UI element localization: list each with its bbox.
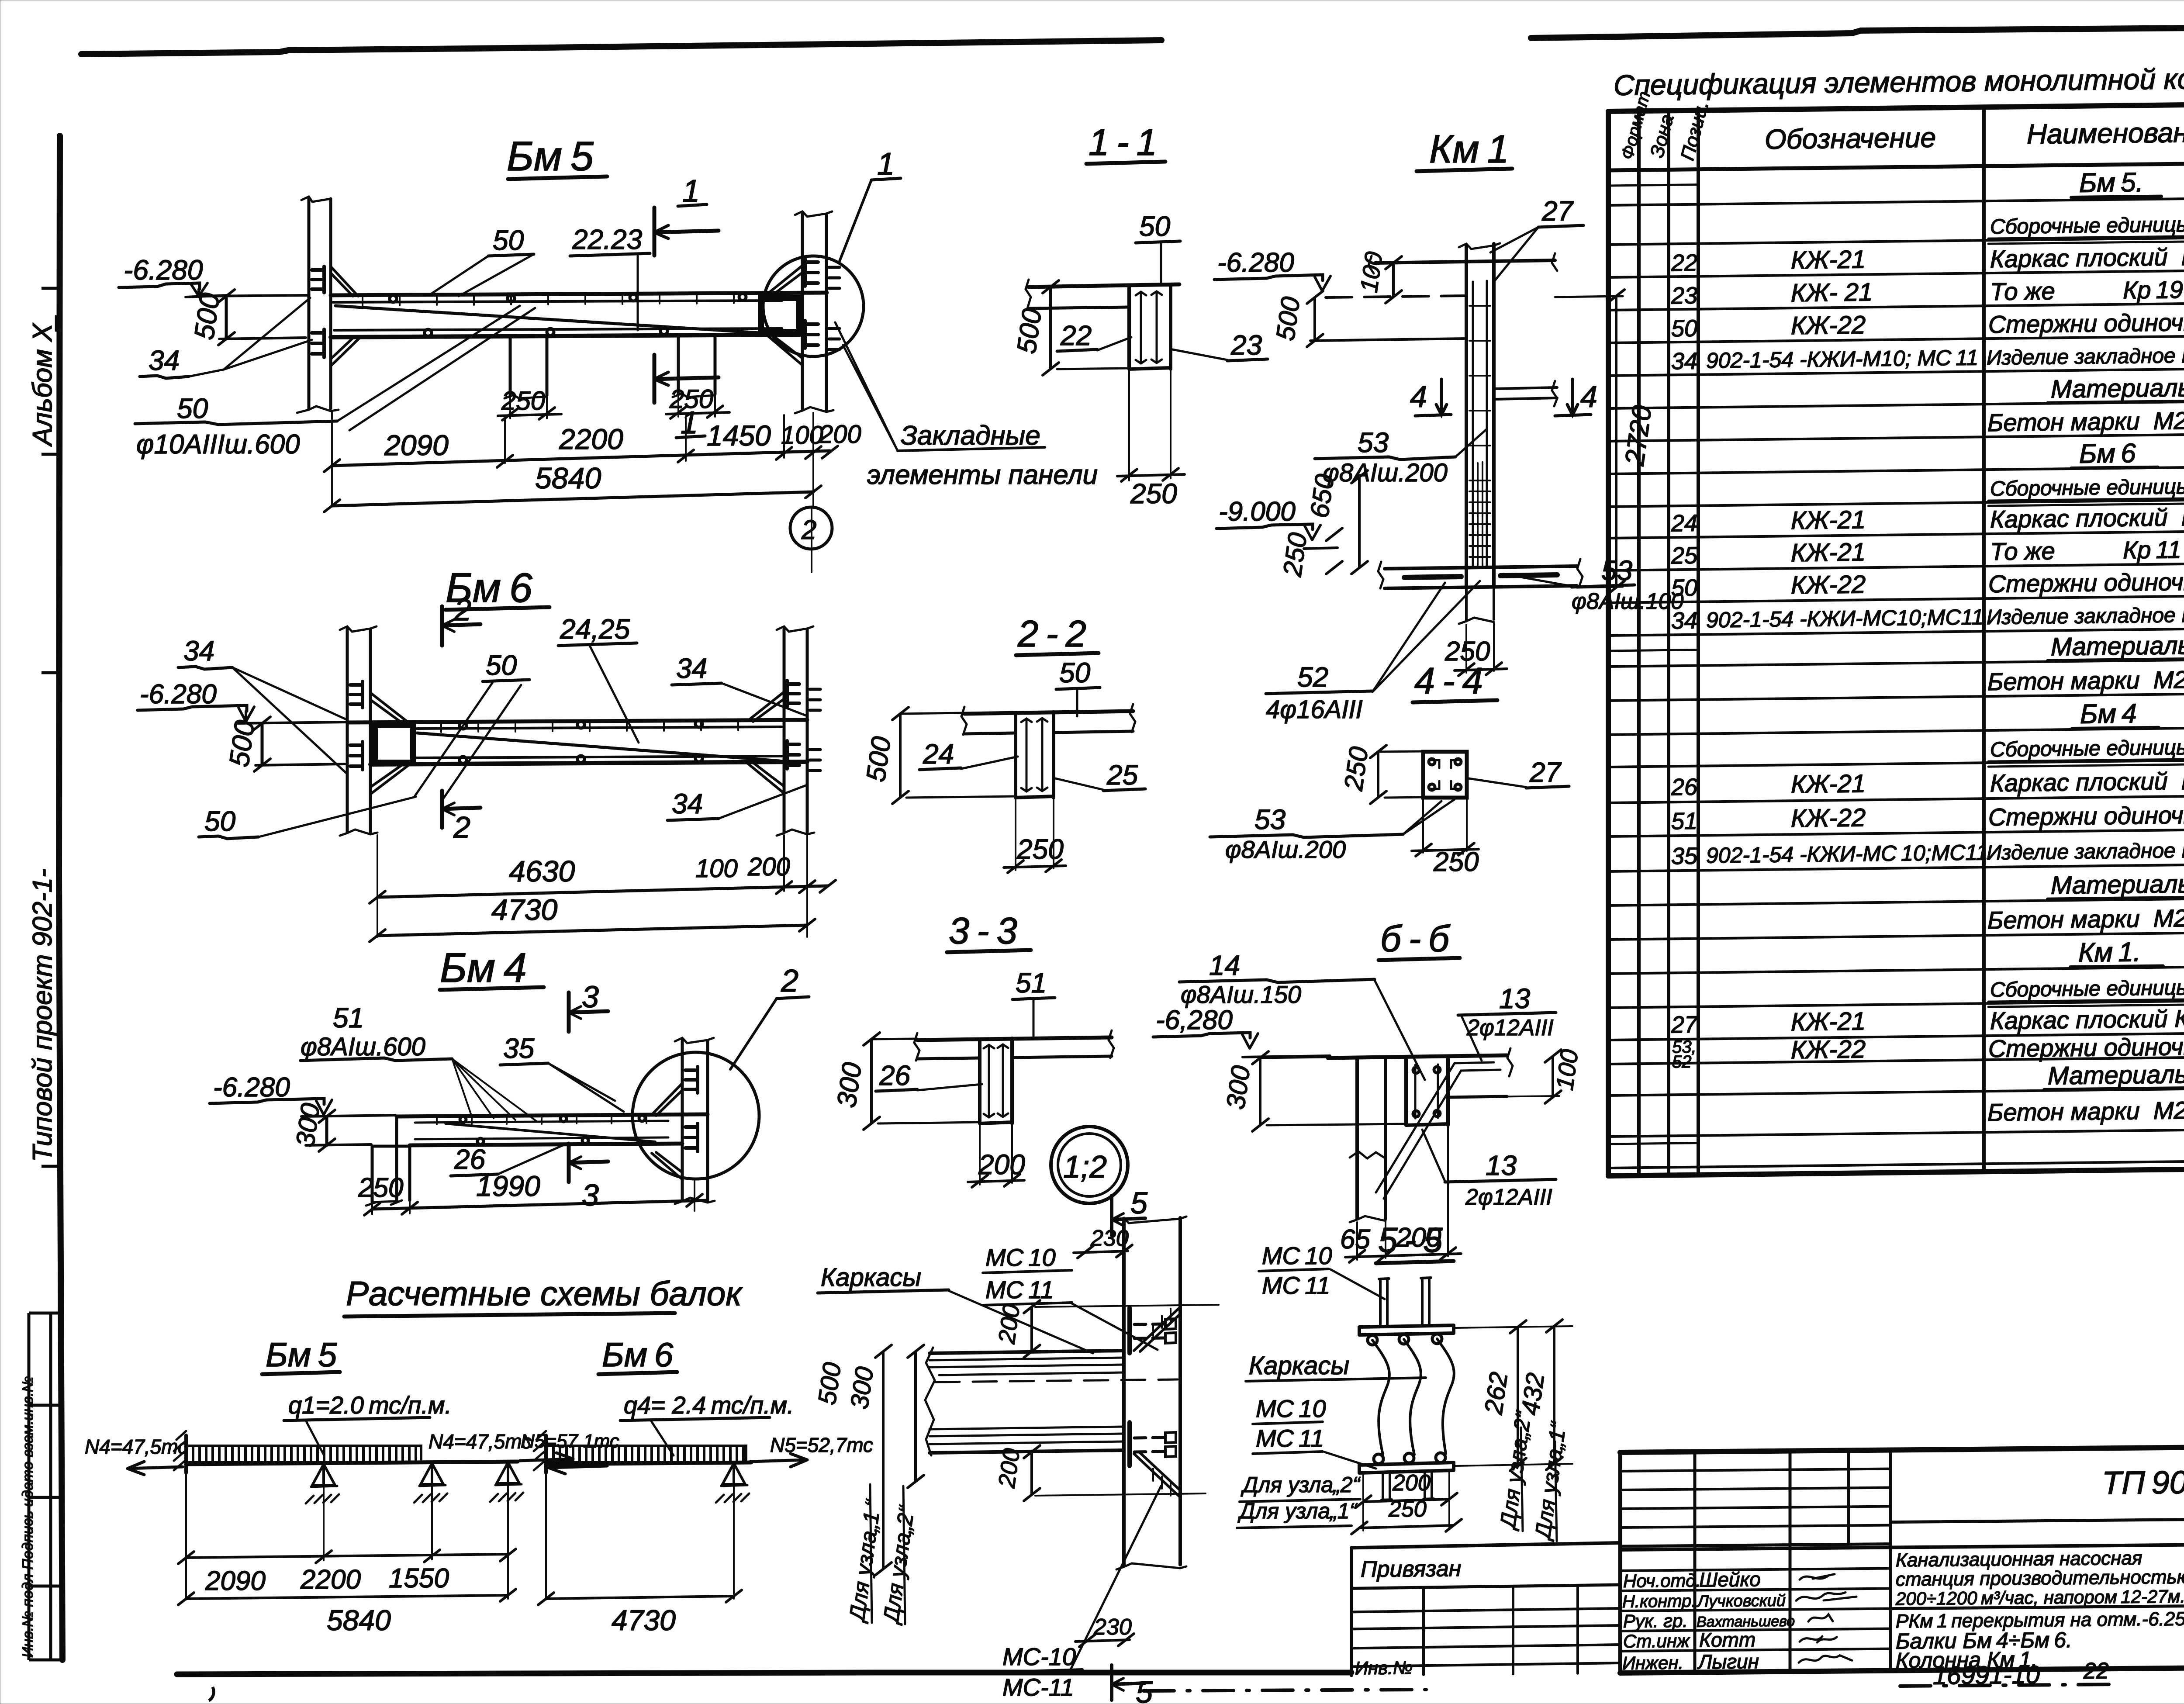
- svg-text:Закладные: Закладные: [901, 421, 1040, 451]
- slab 2-2: [964, 711, 1133, 714]
- bottom plate: [1359, 1462, 1454, 1473]
- dim 200 upper node: [1035, 1305, 1219, 1307]
- svg-text:q1=2.0 тс/п.м.: q1=2.0 тс/п.м.: [288, 1391, 452, 1419]
- wall б-б: [1357, 1058, 1386, 1219]
- svg-text:13: 13: [1486, 1150, 1517, 1181]
- svg-text:50: 50: [177, 393, 208, 424]
- node detail circle: [763, 256, 864, 356]
- svg-text:250: 250: [1016, 833, 1064, 865]
- lower anchors: [1134, 1438, 1165, 1452]
- rebar dots top: [390, 294, 746, 336]
- svg-text:Спецификация элементов монолит: Спецификация элементов монолитной констр…: [1614, 61, 2184, 101]
- svg-text:Стержни одиночные: Стержни одиночные: [1988, 567, 2184, 598]
- svg-text:Привязан: Привязан: [1361, 1556, 1461, 1582]
- svg-text:1;2: 1;2: [1063, 1150, 1107, 1185]
- svg-text:Сборочные единицы и детали.: Сборочные единицы и детали.: [1990, 975, 2184, 1002]
- svg-text:26: 26: [1671, 774, 1698, 801]
- top pins: [1379, 1279, 1389, 1325]
- beam top bundle: [930, 1351, 1124, 1353]
- svg-text:Типовой проект 902-1-: Типовой проект 902-1-: [28, 868, 58, 1162]
- svg-text:51: 51: [333, 1002, 364, 1033]
- svg-text:Для узла„1 “: Для узла„1 “: [844, 1497, 886, 1625]
- svg-text:5840: 5840: [535, 462, 601, 495]
- dim 300 Бм4: [325, 1116, 328, 1145]
- dim 250 1-1: [1129, 369, 1171, 480]
- svg-text:25: 25: [1106, 759, 1138, 791]
- dim 100 Км1: [1392, 263, 1395, 297]
- top plate: [1359, 1325, 1454, 1335]
- svg-text:Н.контр.: Н.контр.: [1622, 1591, 1696, 1611]
- taper diagonal: [335, 306, 760, 333]
- svg-text:-6.280: -6.280: [213, 1072, 290, 1103]
- svg-text:34: 34: [1671, 608, 1697, 634]
- beam left break: [925, 1348, 935, 1455]
- corbel upper left: [331, 266, 358, 296]
- svg-text:Бетон марки М200: Бетон марки М200: [1987, 406, 2184, 436]
- right wall Бм5: [801, 214, 804, 410]
- svg-text:ТП 902-1-54 -КЖ: ТП 902-1-54 -КЖ: [2102, 1462, 2184, 1501]
- corner squiggle: [209, 1687, 214, 1701]
- svg-text:Каркас плоский КР 20: Каркас плоский КР 20: [1990, 766, 2184, 797]
- upper anchors: [1134, 1324, 1165, 1338]
- svg-text:432: 432: [1516, 1371, 1550, 1417]
- svg-text:N4=47,5тс: N4=47,5тс: [429, 1430, 532, 1453]
- svg-text:500: 500: [1271, 295, 1306, 342]
- svg-text:51: 51: [1016, 967, 1047, 999]
- svg-text:Стержни одиночные: Стержни одиночные: [1988, 308, 2184, 338]
- column section rect: [1423, 752, 1467, 798]
- dim extensions 5-5: [1455, 1326, 1572, 1466]
- revision table: [1620, 1469, 1890, 1528]
- svg-text:250: 250: [1433, 847, 1479, 877]
- section mark 5 lower: [1112, 1665, 1145, 1700]
- middle split line: [1620, 1543, 2184, 1550]
- svg-text:2 - 2: 2 - 2: [1017, 613, 1086, 655]
- slab top б-б: [1328, 1055, 1507, 1058]
- svg-text:25: 25: [1671, 543, 1698, 569]
- svg-text:300: 300: [832, 1061, 868, 1110]
- dim 500 1-1: [1049, 287, 1052, 369]
- svg-text:Бм 5.: Бм 5.: [2079, 167, 2143, 198]
- svg-text:27: 27: [1529, 757, 1562, 788]
- svg-text:2090: 2090: [384, 429, 449, 461]
- svg-text:1550: 1550: [389, 1563, 449, 1593]
- top border right segment: [1531, 26, 2184, 38]
- svg-text:КЖ- 21: КЖ- 21: [1791, 278, 1873, 307]
- svg-text:230: 230: [1093, 1614, 1132, 1640]
- svg-text:300: 300: [845, 1365, 879, 1411]
- section mark 1 upper: [654, 207, 719, 256]
- dim 250 below 4-4: [1423, 798, 1467, 853]
- svg-text:902-1-54 -КЖИ-М10; МС 11: 902-1-54 -КЖИ-М10; МС 11: [1706, 345, 1978, 373]
- slab 3-3: [917, 1037, 1112, 1040]
- svg-text:100: 100: [1550, 1047, 1583, 1092]
- slab right step: [1448, 1096, 1507, 1097]
- svg-text:902-1-54 -КЖИ-МС 10;МС11: 902-1-54 -КЖИ-МС 10;МС11: [1706, 840, 1988, 868]
- svg-text:22: 22: [1671, 250, 1697, 277]
- svg-text:34: 34: [676, 653, 707, 684]
- svg-text:КЖ-22: КЖ-22: [1791, 1035, 1866, 1064]
- svg-text:1990: 1990: [476, 1170, 540, 1202]
- svg-text:МС 10: МС 10: [985, 1244, 1056, 1271]
- svg-text:Сборочные единицы и детали: Сборочные единицы и детали: [1990, 735, 2184, 761]
- svg-text:Стержни одиночные: Стержни одиночные: [1988, 801, 2184, 831]
- rib 2 below beam: [678, 335, 715, 394]
- svg-text:Лучковский: Лучковский: [1696, 1592, 1786, 1611]
- svg-text:200: 200: [993, 1447, 1025, 1490]
- svg-text:Бм 6: Бм 6: [2079, 438, 2136, 469]
- svg-text:2φ12АIII: 2φ12АIII: [1465, 1185, 1552, 1210]
- svg-text:Ноч.отд.: Ноч.отд.: [1623, 1570, 1701, 1591]
- svg-text:4630: 4630: [509, 855, 575, 888]
- dim 250 under base: [1466, 623, 1494, 673]
- svg-text:Расчетные схемы балок: Расчетные схемы балок: [346, 1274, 743, 1313]
- svg-text:1450: 1450: [707, 419, 771, 452]
- left wall Бм5: [308, 199, 311, 408]
- svg-text:Для узла„1“: Для узла„1“: [1237, 1499, 1358, 1523]
- dim 300 3-3: [870, 1039, 873, 1123]
- beam bottom lines: [331, 335, 803, 337]
- embedded plate lower left wall: [312, 329, 324, 357]
- bent bars 13: [1376, 1062, 1500, 1199]
- dims Бм5 scheme: [186, 1473, 508, 1600]
- svg-text:26: 26: [879, 1060, 911, 1091]
- table horizontals: [1608, 103, 2184, 111]
- svg-text:То же Кр 11: То же Кр 11: [1990, 536, 2181, 565]
- svg-text:Сборочные единицы и детали.: Сборочные единицы и детали.: [1990, 212, 2184, 238]
- dim line 2 Бм6: [377, 925, 807, 936]
- svg-text:2: 2: [801, 515, 816, 545]
- svg-text:2: 2: [453, 810, 470, 844]
- svg-text:3 - 3: 3 - 3: [949, 910, 1017, 952]
- roller support Бм6: [722, 1463, 745, 1484]
- svg-text:Для узла„2“: Для узла„2“: [1495, 1409, 1536, 1532]
- svg-text:250: 250: [358, 1173, 403, 1203]
- svg-text:φ8АIш.600: φ8АIш.600: [301, 1033, 425, 1061]
- roller supports Бм5: [312, 1464, 335, 1485]
- signature rows: [1620, 1569, 1890, 1651]
- beam Бм4: [397, 1114, 708, 1116]
- svg-text:б - б: б - б: [1380, 918, 1451, 960]
- beam Бм6 closed end left: [375, 725, 413, 763]
- svg-text:51: 51: [1671, 808, 1697, 835]
- upper gusset: [1134, 1308, 1180, 1351]
- svg-text:50: 50: [493, 225, 524, 256]
- margin ticks upper: [41, 287, 60, 290]
- svg-text:4730: 4730: [612, 1604, 676, 1636]
- dim line 2 Бм5: [332, 492, 813, 506]
- dims 65 200 б-б: [1357, 1127, 1448, 1260]
- svg-text:Ст.инж: Ст.инж: [1623, 1631, 1690, 1652]
- svg-text:24,25: 24,25: [560, 613, 630, 645]
- beam closed end block right: [761, 298, 799, 332]
- svg-text:2φ12АIII: 2φ12АIII: [1466, 1015, 1554, 1040]
- svg-text:200: 200: [1392, 1470, 1431, 1496]
- svg-text:q4= 2.4 тс/п.м.: q4= 2.4 тс/п.м.: [624, 1391, 794, 1419]
- dim 250 left 4-4: [1377, 752, 1379, 798]
- svg-text:Наименование: Наименование: [2027, 116, 2184, 150]
- svg-text:МС-10: МС-10: [1002, 1643, 1076, 1670]
- svg-text:4: 4: [1410, 380, 1427, 414]
- svg-text:КЖ-22: КЖ-22: [1791, 570, 1866, 599]
- svg-text:N4=47,5тс: N4=47,5тс: [85, 1435, 188, 1458]
- section mark 1 lower: [654, 355, 719, 403]
- svg-text:φ8АIш.200: φ8АIш.200: [1323, 459, 1448, 487]
- svg-text:52: 52: [1672, 1052, 1691, 1072]
- svg-text:N5=52,7тс: N5=52,7тс: [770, 1434, 873, 1456]
- svg-text:35: 35: [503, 1033, 535, 1064]
- svg-text:50: 50: [1671, 315, 1697, 342]
- svg-text:КЖ-22: КЖ-22: [1791, 803, 1866, 833]
- svg-text:200: 200: [993, 1303, 1025, 1346]
- section mark 3 upper: [569, 992, 608, 1032]
- rib 3-3: [980, 1038, 1012, 1123]
- svg-text:22.23: 22.23: [572, 224, 643, 255]
- dim 500 Км1: [1313, 297, 1316, 341]
- beam Бм6 lines: [347, 720, 807, 722]
- extra short lines left cols: [1608, 185, 1698, 1144]
- dim 200 3-3: [980, 1123, 1012, 1185]
- rib 1 below beam: [510, 337, 547, 395]
- rib 1-1: [1129, 284, 1171, 369]
- svg-text:500: 500: [861, 735, 897, 784]
- svg-text:Рук. гр.: Рук. гр.: [1623, 1611, 1688, 1631]
- svg-text:Бм 5: Бм 5: [507, 133, 594, 180]
- svg-text:Альбом Х̲: Альбом Х̲: [28, 315, 58, 447]
- svg-text:34: 34: [672, 788, 703, 819]
- svg-text:250: 250: [1277, 531, 1312, 578]
- dim 2720: [1615, 296, 1617, 588]
- lower gusset: [1134, 1453, 1180, 1497]
- svg-text:53: 53: [1358, 427, 1389, 458]
- bottom dash-dot line: [1144, 1690, 1426, 1691]
- dim 250 left of base: [1326, 528, 1342, 574]
- dims Бм4: [372, 1200, 708, 1209]
- svg-text:200: 200: [978, 1149, 1025, 1180]
- svg-text:Сборочные единицы и детали.: Сборочные единицы и детали.: [1990, 474, 2184, 501]
- section mark 5 upper: [1112, 1196, 1145, 1235]
- top border left segment: [81, 40, 1161, 54]
- dim 262: [1517, 1327, 1519, 1465]
- svg-text:Каркас плоский Кр-21: Каркас плоский Кр-21: [1990, 1004, 2184, 1034]
- svg-text:Материалы: Материалы: [2051, 373, 2184, 404]
- svg-text:Бм 6: Бм 6: [602, 1335, 674, 1374]
- svg-text:100: 100: [695, 854, 738, 883]
- bottom pins: [1382, 1473, 1392, 1500]
- svg-text:Обозначение: Обозначение: [1765, 121, 1936, 155]
- svg-text:-9.000: -9.000: [1219, 497, 1296, 527]
- corbel lower left: [331, 336, 360, 366]
- hook dots under top plate: [1368, 1334, 1442, 1345]
- detail circle 1;2: [1051, 1127, 1128, 1203]
- svg-text:КЖ-21: КЖ-21: [1791, 769, 1866, 798]
- svg-text:53: 53: [1254, 804, 1286, 835]
- corbel upper right: [764, 266, 802, 298]
- svg-text:N5=57,1тс: N5=57,1тс: [521, 1431, 619, 1452]
- svg-text:КЖ-21: КЖ-21: [1791, 245, 1866, 274]
- svg-text:То же Кр 19: То же Кр 19: [1990, 276, 2183, 305]
- svg-text:4 - 4: 4 - 4: [1414, 660, 1483, 702]
- rebar dots б-б: [1415, 1065, 1438, 1118]
- svg-text:1: 1: [877, 147, 895, 182]
- beam top lines: [331, 293, 827, 295]
- svg-text:Лыгин: Лыгин: [1697, 1650, 1759, 1673]
- svg-text:МС 11: МС 11: [1256, 1424, 1324, 1452]
- svg-text:1 - 1: 1 - 1: [1089, 122, 1157, 163]
- dim 432: [1553, 1326, 1555, 1464]
- dim 650: [1358, 477, 1361, 568]
- svg-text:МС 10: МС 10: [1262, 1242, 1332, 1269]
- embedded plate upper left wall: [312, 266, 324, 293]
- outer frame: [1620, 1445, 2184, 1452]
- right wall Бм4: [681, 1040, 684, 1200]
- svg-text:Бетон марки М200: Бетон марки М200: [1987, 904, 2184, 934]
- svg-text:100: 100: [781, 421, 823, 449]
- rebar 2-2: [1021, 718, 1047, 792]
- load band Бм5: [187, 1446, 421, 1462]
- dim 500 Бм6: [261, 723, 264, 765]
- svg-text:3: 3: [582, 980, 599, 1014]
- left support step Бм4: [372, 1116, 410, 1202]
- section mark 2 lower: [442, 791, 480, 828]
- svg-text:-6,280: -6,280: [1156, 1005, 1233, 1035]
- svg-text:24: 24: [1671, 510, 1697, 537]
- svg-text:φ8АIш.150: φ8АIш.150: [1181, 981, 1301, 1008]
- load band Бм6: [547, 1446, 746, 1462]
- embedded plates right wall: [805, 259, 818, 286]
- svg-text:2: 2: [781, 964, 798, 999]
- svg-text:250: 250: [1388, 1497, 1427, 1522]
- svg-text:262: 262: [1479, 1370, 1513, 1417]
- svg-text:Материалы: Материалы: [2051, 631, 2184, 661]
- svg-text:КЖ-21: КЖ-21: [1791, 538, 1866, 567]
- corbel lower right: [765, 334, 802, 365]
- svg-text:50: 50: [486, 650, 517, 681]
- beam dashed axis: [936, 1379, 1178, 1382]
- svg-text:Материалы.: Материалы.: [2048, 1060, 2184, 1090]
- corbels left Бм6: [370, 693, 408, 723]
- section mark 2 upper: [442, 606, 480, 646]
- svg-text:Км 1: Км 1: [1429, 128, 1509, 171]
- svg-text:Бм 4: Бм 4: [440, 945, 527, 991]
- svg-text:5 - 5: 5 - 5: [1378, 1220, 1443, 1259]
- svg-text:250: 250: [1338, 745, 1373, 792]
- svg-text:Зона: Зона: [1646, 112, 1678, 160]
- svg-text:2: 2: [454, 593, 471, 627]
- foundation base: [1385, 566, 1577, 569]
- svg-text:200: 200: [747, 853, 790, 881]
- dim Бм6 scheme: [546, 1473, 734, 1600]
- svg-text:650: 650: [1305, 472, 1340, 519]
- svg-text:500: 500: [223, 718, 261, 769]
- svg-text:Котт: Котт: [1699, 1628, 1755, 1651]
- svg-text:Инв.№: Инв.№: [1355, 1657, 1413, 1678]
- svg-text:Вахтаньшево: Вахтаньшево: [1697, 1613, 1795, 1631]
- svg-text:-6.280: -6.280: [1217, 248, 1294, 278]
- dim 300 б-б: [1259, 1058, 1261, 1125]
- svg-text:100: 100: [1355, 250, 1387, 294]
- svg-text:Инв.№ подл Подпись идато взам.: Инв.№ подл Подпись идато взам.инв.№: [20, 1376, 36, 1658]
- svg-text:МС-11: МС-11: [1002, 1673, 1074, 1701]
- fixed support Бм6: [544, 1435, 548, 1473]
- svg-text:КЖ-21: КЖ-21: [1791, 505, 1866, 535]
- svg-text:5: 5: [1130, 1186, 1148, 1220]
- svg-text:4φ16АIII: 4φ16АIII: [1266, 695, 1363, 724]
- svg-text:50: 50: [1671, 575, 1697, 601]
- svg-text:4: 4: [1580, 380, 1597, 414]
- slab 1-1: [1029, 284, 1179, 287]
- axis line and circle 2: [812, 413, 813, 572]
- svg-text:50: 50: [1059, 657, 1091, 688]
- svg-text:14: 14: [1209, 950, 1240, 981]
- svg-text:-6.280: -6.280: [140, 679, 217, 709]
- svg-text:24: 24: [923, 738, 954, 770]
- dim line 1 Бм5: [332, 451, 830, 466]
- svg-text:3: 3: [582, 1178, 599, 1212]
- svg-text:500: 500: [813, 1361, 847, 1407]
- svg-text:элементы панели: элементы панели: [867, 460, 1098, 490]
- svg-text:34: 34: [149, 345, 180, 376]
- margin cell column bottom: [28, 1313, 31, 1660]
- fixed support left Бм5: [184, 1435, 188, 1473]
- svg-text:52: 52: [1297, 661, 1328, 693]
- dim line 1 Бм6: [377, 886, 828, 897]
- svg-text:2090: 2090: [205, 1566, 266, 1596]
- svg-text:Каркасы: Каркасы: [821, 1263, 921, 1292]
- right wall Бм6: [783, 629, 786, 832]
- svg-text:Каркас плоский Кр 10: Каркас плоский Кр 10: [1990, 503, 2184, 533]
- rib 2-2: [1016, 712, 1054, 798]
- svg-text:300: 300: [290, 1101, 325, 1148]
- svg-text:Для узла„1“: Для узла„1“: [1530, 1420, 1571, 1542]
- svg-text:МС 10: МС 10: [1256, 1395, 1326, 1422]
- svg-text:Для узла„2“: Для узла„2“: [1241, 1472, 1361, 1497]
- column shaft: [1465, 245, 1468, 588]
- dim 200 lower node: [1035, 1493, 1206, 1496]
- svg-text:Каркас плоский Кр 18: Каркас плоский Кр 18: [1990, 242, 2184, 273]
- S-curve frames: [1372, 1340, 1389, 1455]
- svg-text:23: 23: [1671, 283, 1697, 309]
- node circle Бм4: [632, 1052, 759, 1179]
- dashed level line: [1326, 296, 1466, 297]
- svg-text:Стержни одиночные: Стержни одиночные: [1988, 1032, 2184, 1062]
- dims 500 300 left node: [882, 1351, 885, 1569]
- svg-text:300: 300: [1221, 1064, 1256, 1111]
- stirrup ticks top: [363, 293, 734, 306]
- table frame verticals: [1606, 111, 1611, 1176]
- beam stub right of column: [1494, 387, 1557, 399]
- left wall Бм6: [346, 629, 349, 832]
- svg-text:Инжен.: Инжен.: [1622, 1652, 1683, 1673]
- section mark 3 lower: [569, 1144, 608, 1182]
- svg-text:34: 34: [183, 635, 214, 667]
- svg-text:500: 500: [1012, 307, 1048, 356]
- svg-text:23: 23: [1230, 329, 1262, 361]
- signature squiggles: [1800, 1574, 1835, 1580]
- svg-text:34: 34: [1671, 348, 1697, 375]
- left border: [59, 136, 62, 1660]
- svg-text:Км 1.: Км 1.: [2078, 937, 2141, 968]
- svg-text:Материалы: Материалы: [2051, 870, 2184, 900]
- dim 500 vertical: [225, 296, 228, 339]
- rebar 3-3: [984, 1044, 1008, 1117]
- svg-text:Шейко: Шейко: [1699, 1568, 1761, 1591]
- svg-text:Изделие закладное МС 10: Изделие закладное МС 10: [1987, 344, 2184, 370]
- rib б-б: [1406, 1057, 1448, 1125]
- svg-text:22: 22: [1060, 320, 1092, 351]
- column rebar: [1473, 281, 1487, 568]
- rebar 1-1: [1136, 291, 1162, 363]
